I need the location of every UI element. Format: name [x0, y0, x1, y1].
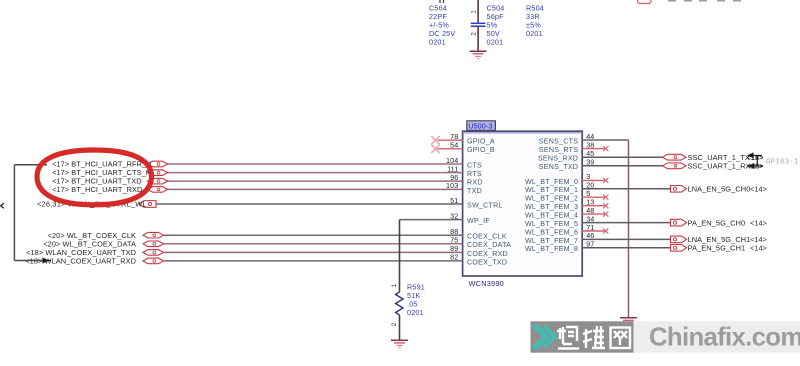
wire C504 bottom: [477, 27, 479, 51]
pin 48 WL_BT_FEM_4 (right): [525, 206, 594, 220]
svg-text:1: 1: [391, 283, 398, 287]
pin 97 WL_BT_FEM_8 (right): [525, 240, 594, 254]
wire SSC_UART_1_TX: [582, 156, 662, 158]
wire BT_HCI_UART_TXD: [166, 180, 463, 182]
off-sheet fragment (red box, cut at top): [638, 0, 652, 4]
wire BT_HCI_UART_RFR_N: [166, 163, 463, 165]
svg-text:RTS: RTS: [467, 170, 482, 178]
svg-text:2: 2: [471, 32, 478, 36]
svg-text:SENS_CTS: SENS_CTS: [539, 137, 578, 145]
C564 value label: [429, 4, 455, 47]
watermark CJK 网: [611, 328, 631, 349]
svg-text:PA_EN_5G_CH1: PA_EN_5G_CH1: [688, 244, 746, 253]
wire pin 71 no-connect stub: [582, 230, 605, 232]
off-page connector BT_HCI_UART_RFR_N: [148, 161, 168, 167]
pin 38 SENS_RTS (right): [539, 140, 595, 154]
pin 32 WP_IF (left): [450, 211, 490, 225]
pin 45 SENS_RXD (right): [538, 149, 594, 163]
pin 103 TXD (left): [446, 181, 482, 195]
pin 96 RXD (left): [450, 173, 483, 187]
pin 46 WL_BT_FEM_7 (right): [525, 231, 594, 245]
watermark CJK 维: [583, 326, 605, 348]
no-connect X pin 3: [603, 178, 608, 183]
svg-text:SW_CTRL: SW_CTRL: [467, 201, 503, 209]
svg-text:COEX_TXD: COEX_TXD: [467, 258, 507, 266]
annotation arrows on SSC <18> labels: [749, 153, 764, 168]
svg-text:COEX_RXD: COEX_RXD: [467, 250, 508, 258]
svg-text:TXD: TXD: [467, 187, 482, 195]
svg-text:WP_IF: WP_IF: [467, 217, 490, 225]
ground SENS_CTS net: [620, 318, 637, 325]
no-connect X pin 71: [603, 228, 608, 233]
svg-text:GPIO_B: GPIO_B: [467, 146, 495, 154]
off-page connector SSC_UART_1_RX: [663, 163, 687, 169]
off-sheet fragments (gray dashes, cut at top): [668, 0, 741, 2]
off-page connector LNA_EN_5G_CH1: [671, 236, 687, 243]
svg-text:COEX_CLK: COEX_CLK: [467, 233, 507, 241]
svg-text:GPI03-1: GPI03-1: [766, 159, 799, 167]
svg-text:WL_BT_FEM_1: WL_BT_FEM_1: [525, 186, 578, 194]
off-page connector LNA_EN_5G_CH0: [671, 186, 687, 193]
svg-text:<14>: <14>: [750, 218, 767, 227]
resistor R591: [396, 292, 403, 315]
svg-text:WL_BT_FEM_3: WL_BT_FEM_3: [525, 203, 578, 211]
annotation bracket (black): [14, 165, 47, 261]
wire WL_BT_COEX_DATA: [164, 243, 463, 245]
wire BT_HCI_UART_RXD: [166, 188, 463, 190]
ground C504: [470, 51, 487, 58]
svg-text:CTS: CTS: [467, 161, 482, 169]
svg-text:0201: 0201: [526, 29, 543, 38]
net label LNA_EN_5G_CH0: [688, 185, 768, 194]
svg-text:WL_BT_FEM_7: WL_BT_FEM_7: [525, 237, 578, 245]
pin 71 WL_BT_FEM_6 (right): [525, 223, 594, 237]
wire GPIO_B no-connect stub: [438, 148, 463, 150]
annotation arrow on <18> WLAN_COEX_UART_RXD: [43, 258, 51, 262]
off-page connector WLAN_COEX_UART_RXD: [143, 258, 164, 264]
pin 44 SENS_CTS (right): [539, 132, 595, 146]
svg-text:0201: 0201: [429, 38, 446, 47]
svg-text:WL_BT_FEM_2: WL_BT_FEM_2: [525, 195, 578, 203]
ground R591: [391, 340, 408, 347]
pin 51 SW_CTRL (left): [450, 196, 503, 210]
wire pin 38 no-connect stub: [582, 148, 605, 150]
pin 34 WL_BT_FEM_5 (right): [525, 214, 594, 228]
pin 5 WL_BT_FEM_2 (right): [525, 189, 590, 203]
capacitor C504: [471, 23, 486, 26]
pin 75 COEX_DATA (left): [450, 236, 511, 250]
wire pin 13 no-connect stub: [582, 205, 605, 207]
svg-text:COEX_DATA: COEX_DATA: [467, 241, 511, 249]
wire LNA_EN_5G_CH1: [582, 238, 670, 240]
svg-text:0201: 0201: [407, 308, 424, 317]
wire C504 top: [477, 0, 479, 23]
svg-text:1: 1: [471, 10, 478, 14]
off-page connector SSC_UART_1_TX: [663, 154, 687, 160]
wire pin 48 no-connect stub: [582, 213, 605, 215]
wire PA_EN_5G_CH1: [582, 247, 670, 249]
svg-text:SENS_TXD: SENS_TXD: [539, 163, 578, 171]
net label PA_EN_5G_CH0: [688, 218, 768, 227]
C504 value label: [487, 4, 505, 47]
no-connect X GPIO_A: [431, 136, 439, 144]
pin 20 WL_BT_FEM_1 (right): [525, 181, 594, 195]
pin 104 CTS (left): [446, 156, 482, 170]
op IC U500-3 reference label: [467, 121, 496, 131]
wire WLAN_SW_CTRL: [156, 203, 463, 205]
svg-text:WL_BT_FEM_5: WL_BT_FEM_5: [525, 220, 578, 228]
wire WP_IF vertical to R591: [399, 220, 401, 292]
wire R591 bottom: [399, 315, 401, 340]
watermark light box: [634, 321, 800, 352]
wire GPIO_A no-connect stub: [438, 139, 463, 141]
svg-text:RXD: RXD: [467, 179, 483, 187]
pin 82 COEX_TXD (left): [450, 253, 507, 267]
svg-text:WCN3990: WCN3990: [469, 279, 505, 288]
no-connect X pin 48: [603, 212, 608, 217]
wire pin 5 no-connect stub: [582, 196, 605, 198]
svg-text:SENS_RXD: SENS_RXD: [538, 155, 578, 163]
wire LNA_EN_5G_CH0: [582, 188, 670, 190]
svg-text:WL_BT_FEM_8: WL_BT_FEM_8: [525, 245, 578, 253]
pin 89 COEX_RXD (left): [450, 244, 508, 258]
no-connect X GPIO_B: [431, 145, 439, 153]
svg-text:WL_BT_FEM_6: WL_BT_FEM_6: [525, 228, 578, 236]
watermark CJK 迅: [557, 327, 579, 349]
pin 54 GPIO_B (left): [450, 141, 495, 155]
wire SENS_CTS to ground: [582, 140, 628, 318]
pin 39 SENS_TXD (right): [539, 158, 595, 172]
off-page connector WL_BT_COEX_DATA: [143, 241, 164, 247]
R504 value label: [526, 4, 544, 39]
svg-text:U500-3: U500-3: [468, 122, 492, 131]
wire SSC_UART_1_RX: [582, 165, 662, 167]
off-page connector WL_BT_COEX_CLK: [143, 232, 164, 238]
pin 88 COEX_CLK (left): [450, 227, 507, 241]
svg-text:LNA_EN_5G_CH0: LNA_EN_5G_CH0: [688, 185, 751, 194]
off-page connector PA_EN_5G_CH0: [671, 219, 687, 226]
no-connect X pin 38: [603, 146, 608, 151]
pin 78 GPIO_A (left): [450, 132, 495, 146]
IC U500-3 body: [463, 131, 583, 276]
svg-text:<17> BT_HCI_UART_RXD: <17> BT_HCI_UART_RXD: [52, 185, 142, 194]
svg-text:WL_BT_FEM_4: WL_BT_FEM_4: [525, 212, 578, 220]
svg-text:PA_EN_5G_CH0: PA_EN_5G_CH0: [688, 218, 746, 227]
off-page connector BT_HCI_UART_RXD: [148, 187, 168, 193]
watermark dark box: [531, 321, 634, 352]
annotation ellipse (red, hand-drawn): [37, 150, 152, 205]
svg-text:<14>: <14>: [750, 185, 767, 194]
off-page connector PA_EN_5G_CH1: [671, 245, 687, 252]
svg-text:SSC_UART_1_RX: SSC_UART_1_RX: [688, 162, 751, 171]
wire WLAN_COEX_UART_RXD: [164, 260, 463, 262]
no-connect X pin 13: [603, 203, 608, 208]
svg-text:WL_BT_FEM_0: WL_BT_FEM_0: [525, 178, 578, 186]
svg-text:0201: 0201: [487, 38, 504, 47]
wire WLAN_COEX_UART_TXD: [164, 251, 463, 253]
wire WL_BT_COEX_CLK: [164, 234, 463, 236]
off-sheet fragment left edge: [1, 203, 4, 208]
net label LNA_EN_5G_CH1: [688, 235, 768, 244]
capacitor C564 (partial, cut at top): [440, 0, 444, 3]
svg-text:GPIO_A: GPIO_A: [467, 138, 495, 146]
svg-text:<14>: <14>: [750, 244, 767, 253]
off-page connector WLAN_SW_CTRL: [139, 201, 156, 208]
pin 111 RTS (left): [447, 164, 482, 178]
watermark chevron: [534, 325, 555, 349]
pin 3 WL_BT_FEM_0 (right): [525, 172, 590, 186]
off-page connector BT_HCI_UART_CTS_N: [148, 170, 168, 176]
svg-text:2: 2: [391, 322, 398, 326]
wire WP_IF horizontal: [400, 219, 463, 221]
R591 value label: [407, 283, 425, 318]
off-page connector WLAN_COEX_UART_TXD: [143, 250, 164, 256]
net label PA_EN_5G_CH1: [688, 244, 768, 253]
wire PA_EN_5G_CH0: [582, 222, 670, 224]
svg-text:SENS_RTS: SENS_RTS: [539, 146, 578, 154]
off-page connector BT_HCI_UART_TXD: [148, 178, 168, 184]
no-connect X pin 5: [603, 195, 608, 200]
svg-text:Chinafix.com: Chinafix.com: [649, 324, 800, 352]
pin 13 WL_BT_FEM_3 (right): [525, 198, 594, 212]
wire pin 3 no-connect stub: [582, 179, 605, 181]
wire BT_HCI_UART_CTS_N: [166, 172, 463, 174]
